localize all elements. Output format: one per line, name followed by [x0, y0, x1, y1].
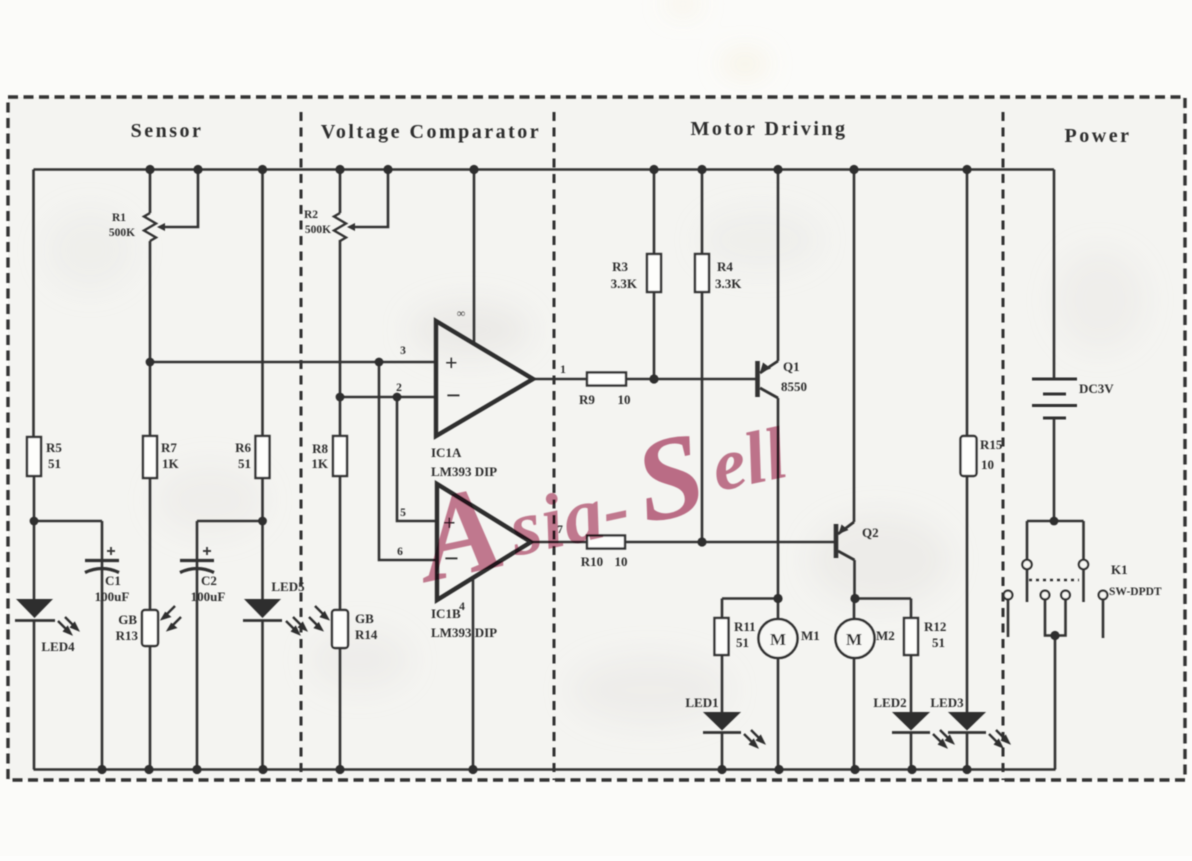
svg-text:GB: GB: [355, 611, 374, 626]
svg-text:3.3K: 3.3K: [715, 276, 742, 291]
svg-text:DC3V: DC3V: [1079, 381, 1114, 396]
svg-text:10: 10: [981, 457, 994, 472]
svg-text:10: 10: [618, 392, 631, 407]
svg-text:R1: R1: [112, 212, 126, 224]
svg-text:1K: 1K: [162, 456, 180, 471]
svg-text:LED3: LED3: [930, 695, 964, 710]
svg-text:C1: C1: [105, 573, 121, 588]
svg-text:R5: R5: [46, 440, 62, 455]
svg-text:8550: 8550: [781, 379, 807, 394]
svg-text:M: M: [846, 630, 862, 649]
svg-text:5: 5: [400, 507, 406, 519]
svg-text:51: 51: [932, 635, 945, 650]
svg-text:R6: R6: [235, 440, 251, 455]
svg-text:R7: R7: [161, 440, 177, 455]
svg-text:C2: C2: [201, 573, 217, 588]
svg-text:10: 10: [615, 554, 628, 569]
svg-text:+: +: [445, 350, 458, 375]
svg-text:K1: K1: [1111, 562, 1128, 577]
svg-text:Voltage Comparator: Voltage Comparator: [321, 121, 541, 143]
svg-text:R4: R4: [717, 259, 733, 274]
svg-text:R13: R13: [116, 628, 139, 643]
svg-text:R14: R14: [355, 627, 378, 642]
svg-text:Sensor: Sensor: [131, 120, 204, 142]
svg-text:−: −: [446, 381, 461, 410]
svg-text:R2: R2: [304, 209, 318, 221]
svg-text:LED4: LED4: [41, 639, 75, 654]
svg-text:M: M: [770, 630, 786, 649]
svg-text:R9: R9: [579, 392, 595, 407]
svg-text:SW-DPDT: SW-DPDT: [1109, 586, 1162, 598]
svg-text:Power: Power: [1065, 125, 1132, 147]
svg-text:LED1: LED1: [685, 695, 718, 710]
svg-text:R15: R15: [980, 437, 1003, 452]
svg-text:IC1A: IC1A: [431, 445, 462, 460]
svg-text:R8: R8: [312, 441, 328, 456]
svg-text:LED2: LED2: [873, 695, 906, 710]
svg-text:2: 2: [396, 382, 402, 394]
svg-text:4: 4: [459, 601, 465, 613]
svg-text:500K: 500K: [305, 224, 331, 236]
svg-text:1: 1: [560, 364, 566, 376]
svg-text:R11: R11: [734, 619, 756, 634]
svg-text:IC1B: IC1B: [431, 606, 461, 621]
svg-text:Motor Driving: Motor Driving: [690, 118, 847, 140]
svg-text:R3: R3: [612, 259, 628, 274]
svg-text:LED5: LED5: [271, 579, 305, 594]
svg-text:M2: M2: [876, 628, 895, 643]
svg-text:∞: ∞: [457, 308, 465, 320]
svg-text:51: 51: [48, 456, 61, 471]
svg-text:Q1: Q1: [783, 359, 800, 374]
svg-text:1K: 1K: [311, 456, 329, 471]
svg-text:3: 3: [400, 345, 406, 357]
svg-text:100uF: 100uF: [95, 589, 130, 604]
svg-text:500K: 500K: [109, 227, 135, 239]
svg-text:GB: GB: [118, 612, 137, 627]
svg-text:100uF: 100uF: [191, 589, 226, 604]
svg-text:6: 6: [397, 546, 403, 558]
svg-text:R12: R12: [924, 619, 946, 634]
svg-text:51: 51: [736, 635, 749, 650]
svg-text:51: 51: [238, 456, 251, 471]
svg-text:M1: M1: [801, 628, 820, 643]
svg-text:Q2: Q2: [862, 525, 879, 540]
svg-text:3.3K: 3.3K: [611, 276, 638, 291]
svg-text:LM393 DIP: LM393 DIP: [431, 625, 497, 640]
